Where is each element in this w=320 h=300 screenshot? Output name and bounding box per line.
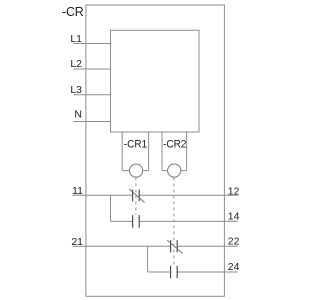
enclosure frame -CR [86, 5, 225, 296]
svg-text:-CR: -CR [62, 5, 84, 19]
coil circle -CR2 [168, 164, 181, 177]
svg-text:-CR1: -CR1 [124, 139, 147, 151]
wire N [73, 121, 110, 123]
svg-text:14: 14 [228, 211, 240, 223]
wire L2 [73, 68, 110, 70]
actuator dashed link -CR1 [135, 177, 137, 215]
wire 11-12 left [73, 194, 133, 196]
relay block box [111, 30, 200, 132]
wire -CR2 bottom left [162, 170, 168, 172]
wire L3 [73, 94, 110, 96]
wire -CR2 bottom right [181, 170, 187, 172]
wire 14 vertical tap [110, 195, 112, 221]
contact NC 21-22 right bar [176, 240, 178, 252]
svg-text:21: 21 [71, 236, 83, 248]
contact NO 24 right bar [176, 266, 178, 279]
contact NC 21-22 slash [167, 240, 182, 253]
wire 14 left [111, 220, 133, 222]
svg-text:12: 12 [228, 186, 240, 198]
wire 24 left [148, 271, 171, 273]
svg-text:-CR2: -CR2 [163, 139, 186, 151]
contact NC 11-12 left bar [132, 190, 134, 202]
wire -CR1 bottom right [143, 170, 149, 172]
coil circle -CR1 [130, 164, 143, 177]
wire 24 vertical tap [147, 246, 149, 272]
wire 21-22 right [178, 245, 238, 247]
contact NO 24 left bar [170, 266, 172, 279]
coil branch -CR2 right lead [186, 132, 188, 171]
contact NC 21-22 left bar [170, 240, 172, 252]
coil branch -CR1 left lead [121, 132, 123, 171]
wire -CR1 bottom left [122, 170, 129, 172]
wire 11-12 right [140, 194, 238, 196]
svg-text:L2: L2 [70, 58, 82, 70]
wire 21-22 left [73, 245, 171, 247]
wire 14 right [140, 220, 238, 222]
contact NC 11-12 right bar [138, 190, 140, 202]
contact NO 14 right bar [138, 215, 140, 228]
contact NO 14 left bar [132, 215, 134, 228]
svg-text:11: 11 [72, 185, 83, 197]
actuator dashed link -CR2 [173, 177, 175, 265]
svg-text:22: 22 [228, 235, 240, 247]
coil branch -CR1 right lead [148, 132, 150, 171]
wire 24 right [178, 271, 238, 273]
contact NC 11-12 slash [129, 189, 144, 202]
coil branch -CR2 left lead [161, 132, 163, 171]
svg-text:N: N [74, 109, 82, 121]
wire L1 [73, 43, 110, 45]
svg-text:24: 24 [228, 261, 240, 273]
